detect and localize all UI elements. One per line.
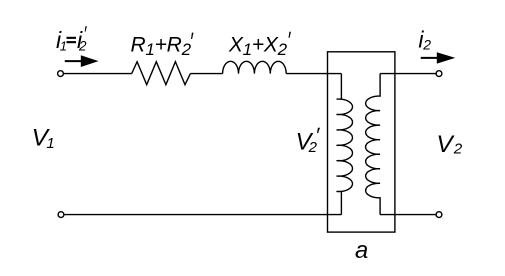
prime of R2 <box>191 33 194 39</box>
svg-text:2: 2 <box>308 139 318 156</box>
transformer box <box>328 52 395 232</box>
svg-text:1: 1 <box>46 135 54 152</box>
inductor X1+X2' <box>223 61 287 73</box>
terminal top-left <box>58 71 64 77</box>
svg-text:X1+X2: X1+X2 <box>228 34 288 60</box>
svg-text:V: V <box>436 131 455 158</box>
wire top-left: terminal to resistor <box>64 73 132 75</box>
terminal bottom-left <box>58 212 64 218</box>
current arrow i2 head <box>437 52 456 63</box>
svg-text:1: 1 <box>60 38 67 53</box>
equals sign <box>67 37 77 39</box>
bottom wire right <box>380 214 436 216</box>
svg-text:a: a <box>355 237 368 264</box>
wire transformer to top-right terminal <box>380 73 436 75</box>
wire inductor to transformer left stub <box>286 73 341 75</box>
current arrow i1 head <box>81 55 99 67</box>
svg-text:R1+R2: R1+R2 <box>131 34 192 60</box>
current arrow i1 shaft <box>65 60 83 62</box>
left (primary) winding with stubs: 6 turns <box>337 74 353 215</box>
right (secondary) winding with stubs: 7 turns <box>366 74 381 215</box>
svg-text:2: 2 <box>78 38 87 53</box>
svg-text:2: 2 <box>453 140 463 157</box>
prime of i2' <box>85 26 87 31</box>
terminal bottom-right <box>436 212 442 218</box>
svg-text:2: 2 <box>422 37 431 53</box>
wire resistor to inductor <box>190 73 222 75</box>
prime of V2' <box>317 128 320 133</box>
current arrow i2 shaft <box>421 57 439 59</box>
prime of X2 <box>289 32 292 38</box>
resistor R1+R2' <box>132 62 191 85</box>
bottom wire left <box>64 214 341 216</box>
terminal top-right <box>436 71 442 77</box>
